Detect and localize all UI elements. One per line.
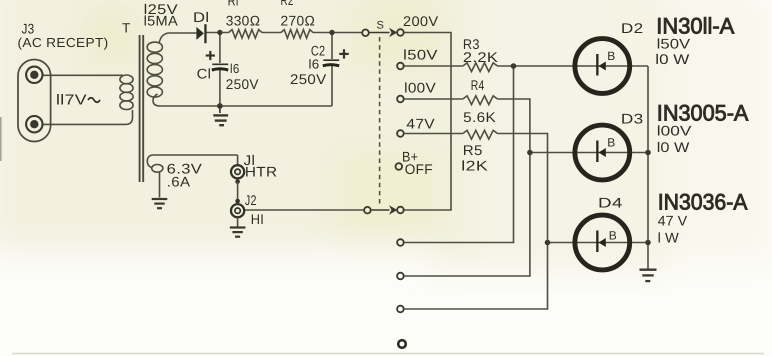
svg-text:5.6K: 5.6K: [463, 109, 496, 125]
switch contact 200V: [397, 29, 404, 36]
wire primary bottom from J3 to transformer: [42, 110, 133, 124]
transformer T core: [140, 35, 144, 182]
jack J1: [231, 155, 244, 184]
svg-text:270Ω: 270Ω: [281, 13, 316, 29]
svg-text:OFF: OFF: [405, 161, 433, 177]
transformer secondary 125V winding: [147, 42, 162, 97]
wire 150V row through R3 to D2 and right bus corner: [404, 65, 463, 67]
switch S gang dashed link: [379, 37, 381, 205]
svg-text:l00V: l00V: [657, 123, 692, 139]
svg-text:HI: HI: [251, 211, 264, 227]
switch contact 47V: [397, 130, 404, 137]
resistor R4: [463, 96, 498, 105]
switch pole2 contact row2: [397, 273, 404, 280]
zener diode D4: [575, 215, 630, 270]
svg-text:l0 W: l0 W: [655, 51, 690, 67]
junction D3 cathode bus node: [645, 150, 651, 156]
junction D4 cathode bus node: [645, 240, 651, 246]
svg-text:IN3036-A: IN3036-A: [658, 190, 748, 215]
zener diode D2: [575, 39, 630, 94]
ground under 6.3V winding: [152, 199, 168, 208]
svg-text:l50V: l50V: [403, 47, 438, 63]
svg-text:2.2K: 2.2K: [463, 49, 499, 65]
svg-text:330Ω: 330Ω: [226, 13, 261, 29]
connector J3 pin bottom: [26, 116, 42, 132]
C1 plus sign: [206, 51, 215, 60]
wire top rail R1 to R2: [262, 32, 281, 34]
switch pole2 contact row1: [397, 239, 404, 246]
svg-text:l00V: l00V: [404, 80, 436, 96]
switch contact B+ OFF: [396, 163, 403, 170]
svg-text:Rl: Rl: [228, 0, 239, 9]
svg-text:S: S: [377, 19, 385, 31]
switch S pole1 wiper arrow: [368, 28, 397, 37]
zener diode D3: [575, 125, 630, 180]
svg-text:l5MA: l5MA: [144, 13, 179, 29]
svg-text:T: T: [122, 21, 131, 36]
svg-text:Dl: Dl: [193, 9, 209, 25]
svg-text:B: B: [607, 49, 615, 63]
capacitor C1: [212, 64, 228, 70]
junction R5 output D4 node: [545, 240, 551, 246]
svg-text:200V: 200V: [403, 13, 439, 29]
svg-text:ll7V: ll7V: [56, 93, 87, 109]
C2 plus sign: [339, 49, 348, 58]
bottom edge scan line: [12, 353, 764, 354]
svg-text:l0 W: l0 W: [657, 139, 690, 155]
svg-text:R5: R5: [463, 142, 483, 158]
switch contact 100V: [397, 96, 404, 103]
ground under C1: [213, 106, 228, 125]
svg-text:(AC RECEPT): (AC RECEPT): [18, 35, 109, 50]
junction R4 output D3 node: [527, 150, 533, 156]
transformer primary winding: [120, 75, 133, 110]
capacitor C2: [323, 60, 339, 66]
svg-text:D4: D4: [598, 195, 623, 211]
switch S pole1 pivot: [362, 30, 369, 37]
wire secondary top lead to rail: [159, 33, 196, 44]
svg-text:l2K: l2K: [461, 158, 488, 174]
wire R4 output corner down to D3 row and pole2 row2: [404, 99, 530, 276]
svg-text:D2: D2: [621, 20, 644, 36]
diode D1: [196, 24, 206, 43]
wire C2 top lead: [331, 33, 333, 60]
wire primary top from J3 to transformer: [42, 74, 124, 76]
wire D3 row: [530, 152, 648, 154]
svg-text:Cl: Cl: [197, 66, 212, 82]
wire R3 output to D2 row: [498, 65, 649, 67]
svg-text:J2: J2: [245, 192, 257, 208]
switch pole2 contact row0: [397, 207, 404, 214]
jack J2: [231, 199, 244, 227]
wire D4 row: [548, 242, 649, 244]
wire right cathode bus: [647, 66, 649, 270]
connector J3 pin top: [26, 67, 42, 83]
wire 47V row to R5: [404, 133, 463, 135]
svg-text:HTR: HTR: [245, 164, 278, 180]
junction C2 top node: [329, 30, 334, 35]
resistor R1: [229, 30, 262, 38]
switch pole2 wiper arrow: [371, 205, 397, 214]
wire J2 to pole2 pivot: [244, 209, 364, 211]
switch pole2 contact row3: [397, 306, 404, 313]
wire J1 to J2: [237, 182, 239, 201]
svg-text:l W: l W: [658, 230, 680, 246]
svg-text:250V: 250V: [226, 76, 259, 92]
junction C1 ground node: [217, 103, 223, 109]
svg-text:B: B: [607, 136, 615, 150]
left edge scan mark: [0, 117, 2, 161]
wire 200V contact to bus and down to pole2 contact: [404, 33, 451, 211]
ground under J2: [230, 228, 246, 237]
svg-text:R2: R2: [281, 0, 294, 8]
wire C2 right riser on ground bus: [331, 66, 333, 106]
wire 100V row to R4: [404, 98, 463, 100]
wire top rail D1 to R1: [207, 32, 229, 34]
junction C1 top node: [217, 30, 222, 35]
resistor R3: [463, 63, 498, 72]
wire R3 junction down to pole2 row1: [404, 66, 514, 243]
wire top rail R2 to switch pivot: [313, 32, 362, 34]
svg-text:.6A: .6A: [167, 174, 191, 190]
resistor R2: [281, 30, 313, 38]
svg-text:250V: 250V: [290, 71, 327, 87]
switch pole2 contact off isolated: [398, 340, 406, 348]
ground right bus: [640, 270, 657, 281]
switch contact 150V: [397, 63, 404, 70]
117V sine squiggle: [88, 98, 100, 103]
transformer 6.3V heater winding: [147, 155, 237, 198]
junction R3 output node: [511, 63, 517, 69]
switch pole2 pivot: [364, 207, 371, 214]
svg-text:47 V: 47 V: [658, 213, 688, 229]
wire C1 top lead: [219, 33, 221, 64]
connector J3 body: [18, 60, 51, 142]
svg-text:R4: R4: [471, 77, 485, 93]
svg-text:l50V: l50V: [657, 36, 691, 52]
resistor R5: [463, 130, 498, 139]
svg-text:B: B: [609, 229, 617, 243]
wire R5 output corner down to D4 row and pole2 row3: [404, 134, 548, 310]
svg-text:D3: D3: [621, 111, 644, 127]
svg-text:l6: l6: [230, 61, 240, 76]
wire ground bus bottom: [153, 94, 332, 106]
svg-text:47V: 47V: [406, 115, 435, 131]
svg-text:l6: l6: [309, 57, 320, 72]
wire C1 bottom lead: [219, 70, 221, 106]
